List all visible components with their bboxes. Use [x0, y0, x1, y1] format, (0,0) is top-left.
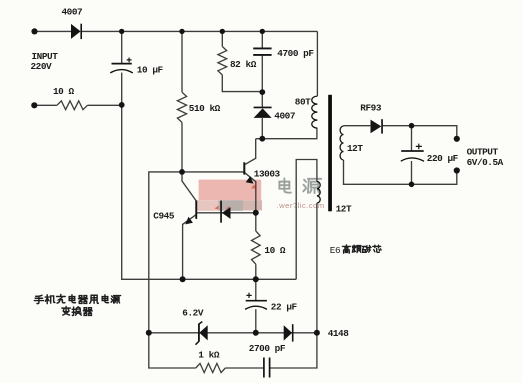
wire 82k bottom elbow to snubber node: [222, 75, 262, 92]
svg-text:510 kΩ: 510 kΩ: [189, 103, 221, 114]
wire left column below 10uF cap down and bottom rail A: [122, 73, 297, 280]
diode D6 RF93 output rectifier: [371, 119, 383, 133]
svg-text:4148: 4148: [328, 328, 350, 339]
wire right loop up to feedback winding: [296, 160, 317, 280]
wire C945 collector to node A: [182, 174, 196, 201]
svg-text:1 kΩ: 1 kΩ: [198, 350, 220, 361]
svg-text:4007: 4007: [62, 7, 83, 18]
diode D2 4007 clamp: [254, 107, 272, 118]
wire 4007 diode to collector node: [261, 118, 263, 139]
wire primary winding top lead: [316, 31, 318, 96]
transformer feedback winding 12T: [317, 182, 320, 204]
wire 10ohm resistor to junction: [87, 104, 121, 106]
wire RF93 to output top: [383, 126, 457, 136]
wire top rail left segment: [35, 30, 72, 32]
output terminal plus: [454, 136, 460, 142]
wire left column above 10uF cap: [121, 31, 123, 63]
capacitor C3 22uF electrolytic: [245, 293, 267, 310]
svg-text:E6: E6: [330, 245, 341, 256]
capacitor C5 220uF output: [401, 144, 424, 162]
wire collector rail to primary winding bottom: [256, 138, 318, 140]
svg-text:12T: 12T: [336, 204, 352, 215]
svg-text:12T: 12T: [347, 143, 363, 154]
input terminal lower: [31, 102, 37, 108]
svg-text:6.2V: 6.2V: [182, 307, 204, 318]
wire 10ohm-2 bottom lead to rail A: [255, 264, 257, 279]
label E6 high frequency core: [330, 245, 381, 256]
transistor Q1 13003 switch: [243, 162, 253, 183]
svg-text:10 Ω: 10 Ω: [264, 245, 286, 256]
output terminal minus: [454, 167, 460, 173]
wire 510k column top: [181, 31, 183, 92]
svg-text:C945: C945: [153, 211, 175, 222]
wire input lower lead to 10ohm resistor: [34, 104, 57, 106]
wire top rail from diode to transformer: [82, 30, 318, 32]
wire C945 emitter down to rail A: [183, 215, 197, 280]
node A junction base drive: [179, 169, 185, 175]
wire node A to 13003 base: [182, 171, 244, 173]
wire 220uF bottom lead: [411, 161, 413, 184]
capacitor C4 2700pF: [264, 358, 270, 378]
svg-text:10 Ω: 10 Ω: [53, 86, 75, 97]
junction emitter sense node: [253, 210, 259, 216]
svg-text:2700 pF: 2700 pF: [249, 343, 286, 354]
wire bottom rail C middle segment: [225, 367, 264, 369]
wire snubber node down to 4007 diode: [261, 55, 263, 106]
junction zener rail right: [314, 330, 320, 336]
junction top rail 82k column: [220, 29, 225, 34]
wire 22uF top lead: [255, 279, 257, 300]
wire feedback winding down to bottom rail C: [270, 203, 317, 368]
transformer primary winding 80T: [312, 96, 318, 128]
transformer core E6: [328, 95, 332, 212]
svg-text:10 μF: 10 μF: [137, 64, 164, 75]
junction rail A C945 emitter: [180, 276, 186, 282]
junction top rail 510k column: [179, 29, 184, 34]
svg-text:6V/0.5A: 6V/0.5A: [467, 157, 504, 168]
junction output cap bottom: [409, 182, 415, 188]
caption line 1 mobile phone charger power supply: [34, 294, 120, 303]
wire 22uF bottom lead to zener rail: [255, 309, 257, 333]
diode D1 4007 input rectifier: [71, 24, 82, 39]
junction rail A 22uF column: [253, 276, 259, 282]
junction output cap top: [409, 123, 415, 129]
wire zener rail B: [149, 332, 317, 334]
resistor R4 10 ohm emitter: [252, 231, 261, 264]
capacitor C2 4700pF snubber: [253, 48, 271, 55]
wire 510k column bottom to node A: [181, 122, 183, 171]
junction 10uF and 10ohm: [119, 102, 125, 108]
wire 13003 collector drop: [245, 139, 256, 165]
diode D5 4148: [284, 324, 294, 341]
diode D4 zener 6.2V: [196, 322, 208, 345]
wire C945 base to sense diode to emitter node: [197, 212, 256, 214]
svg-text:80T: 80T: [295, 96, 311, 107]
junction top rail 4700pF column: [260, 29, 265, 34]
diode D3 base sense: [220, 201, 230, 223]
input terminal upper: [31, 28, 37, 34]
svg-text:4700 pF: 4700 pF: [277, 48, 314, 59]
junction collector node: [259, 136, 265, 142]
junction zener rail left: [146, 330, 152, 336]
svg-text:4007: 4007: [274, 111, 295, 122]
junction zener rail 22uF column: [253, 330, 259, 336]
watermark pink blob: [196, 180, 262, 211]
svg-text:22 μF: 22 μF: [271, 301, 298, 312]
wire secondary bottom rail: [344, 160, 457, 184]
wire 220uF top lead: [411, 126, 413, 151]
transformer secondary winding 12T: [340, 126, 343, 160]
wire 10ohm-2 top lead: [255, 213, 257, 231]
wire 13003 emitter lead: [245, 173, 256, 213]
resistor R5 1k: [196, 363, 226, 372]
capacitor C1 10uF electrolytic: [110, 58, 133, 73]
transistor Q2 C945 protection: [185, 201, 197, 225]
wire node A left and down to zener rail and 1k: [149, 172, 196, 368]
svg-text:OUTPUT: OUTPUT: [467, 146, 499, 157]
caption line 2 converter: [62, 307, 92, 316]
svg-text:220 μF: 220 μF: [427, 153, 459, 164]
wire 82k column top: [221, 31, 223, 46]
junction snubber node: [259, 89, 265, 95]
svg-text:82 kΩ: 82 kΩ: [230, 59, 257, 70]
resistor R2 510k startup: [177, 92, 186, 122]
wire primary winding bottom lead: [316, 128, 318, 139]
wire secondary top to RF93: [344, 125, 371, 127]
svg-text:13003: 13003: [254, 168, 281, 179]
resistor R1 10 ohm input: [57, 101, 88, 110]
junction top rail 10uF column: [119, 29, 124, 34]
svg-text:220V: 220V: [31, 61, 53, 72]
watermark gray text 电源: [279, 178, 321, 193]
resistor R3 82k snubber: [218, 47, 227, 75]
svg-text:RF93: RF93: [360, 103, 382, 114]
wire 4700pF column top: [261, 31, 263, 48]
